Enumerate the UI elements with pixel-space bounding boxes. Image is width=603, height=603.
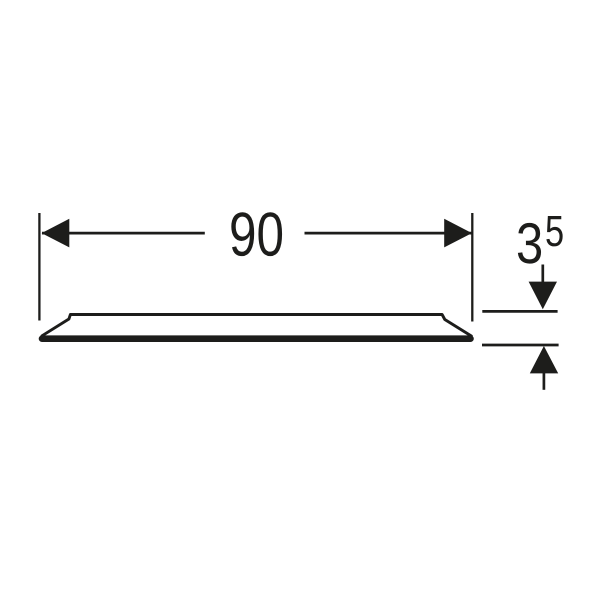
arrowhead left [42, 219, 70, 248]
dimension line 90 right segment [305, 232, 472, 235]
plate right edge chamfer [442, 315, 471, 337]
reference line bottom [482, 344, 559, 347]
dimension line 90 left segment [42, 232, 205, 235]
plate top surface [70, 313, 442, 316]
arrow down (3.5 upper) [529, 265, 557, 310]
plate bottom edge [42, 335, 471, 342]
extension line right [471, 213, 473, 322]
plate left edge chamfer [42, 315, 70, 336]
svg-text:3: 3 [516, 212, 543, 276]
reference line top [482, 310, 557, 313]
arrow up (3.5 lower) [530, 346, 558, 390]
svg-text:5: 5 [545, 208, 564, 256]
arrowhead right [444, 219, 472, 248]
extension line left [38, 213, 40, 321]
svg-text:90: 90 [229, 200, 284, 269]
